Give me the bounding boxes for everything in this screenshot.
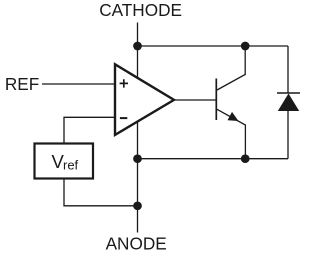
node emitter junction: [241, 154, 250, 163]
wire top rail: [138, 45, 289, 47]
wire anode lead: [137, 159, 139, 233]
svg-text:CATHODE: CATHODE: [99, 0, 182, 20]
diode D1 triangle: [278, 94, 299, 112]
diode D1: [277, 93, 300, 111]
diode D1 cathode bar: [277, 92, 300, 94]
op-amp U1: [115, 64, 174, 135]
Vref box outline: [35, 144, 94, 179]
wire REF input: [42, 83, 115, 85]
node cathode junction: [133, 42, 142, 51]
svg-text:ref: ref: [63, 158, 79, 173]
wire collector: [217, 46, 245, 90]
op-amp U1 triangle body: [115, 64, 174, 135]
wire bottom rail: [138, 158, 289, 160]
wire op-amp output to base: [174, 99, 216, 101]
op-amp U1 inverting input -: [120, 117, 127, 119]
svg-text:REF: REF: [5, 74, 39, 94]
wire Vref to anode: [64, 179, 138, 206]
svg-text:ANODE: ANODE: [106, 234, 167, 254]
voltage reference Vref: [35, 144, 94, 179]
op-amp U1 non-inverting input +: [120, 79, 128, 87]
wire emitter: [217, 109, 245, 158]
wire cathode lead: [137, 23, 139, 47]
wire inverting input to Vref: [64, 117, 115, 143]
node collector junction: [241, 42, 250, 51]
node anode junction: [133, 201, 142, 210]
wire diode bottom lead: [287, 111, 289, 159]
wire diode top lead: [287, 46, 289, 93]
transistor Q1: [216, 79, 238, 122]
transistor Q1 base bar: [215, 79, 217, 121]
wire center supply line: [137, 46, 139, 159]
node left bottom junction: [133, 154, 142, 163]
transistor Q1 emitter arrow: [228, 112, 239, 121]
